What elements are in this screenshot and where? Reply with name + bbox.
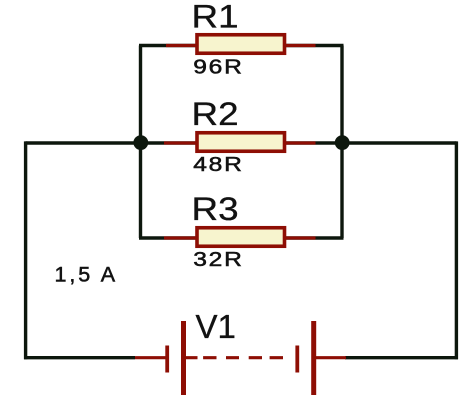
battery V1 left tall plate: [181, 321, 186, 395]
svg-text:32R: 32R: [193, 248, 244, 271]
wire: right vertical bus (parallel branch, R1 to R3): [340, 46, 343, 239]
wire: left vertical bus (parallel branch, R1 to R3): [139, 46, 142, 239]
svg-text:48R: 48R: [193, 153, 244, 176]
battery V1 left lead: [135, 356, 166, 359]
junction: right node: [335, 135, 350, 150]
wire: bottom left horizontal to battery: [24, 356, 135, 359]
resistor R2 body: [197, 133, 285, 152]
battery V1 left short plate: [165, 346, 169, 373]
battery V1 right short plate: [295, 346, 299, 373]
wire: R3 row horizontal: [139, 236, 344, 239]
resistor R1 body: [197, 35, 285, 54]
wire: R2 row horizontal (main net): [26, 141, 457, 144]
svg-text:R2: R2: [192, 97, 239, 132]
battery V1 dashed middle: [186, 356, 296, 359]
svg-text:R3: R3: [192, 192, 239, 227]
svg-text:1,5 A: 1,5 A: [55, 263, 119, 287]
resistor R3 leads: [164, 236, 316, 239]
wire: R1 row horizontal: [139, 44, 344, 47]
svg-text:V1: V1: [196, 308, 236, 345]
battery V1 right lead: [316, 356, 347, 359]
battery V1 right tall plate: [311, 321, 316, 395]
junction: left node: [133, 135, 148, 150]
resistor R3 body: [197, 228, 285, 247]
wire: left outer vertical: [24, 141, 27, 359]
wire: right outer vertical: [455, 141, 458, 359]
svg-text:R1: R1: [192, 0, 239, 35]
resistor R1 leads: [166, 44, 316, 47]
resistor R2 leads: [164, 141, 316, 144]
svg-text:96R: 96R: [193, 55, 244, 78]
wire: bottom right horizontal from battery: [345, 356, 458, 359]
